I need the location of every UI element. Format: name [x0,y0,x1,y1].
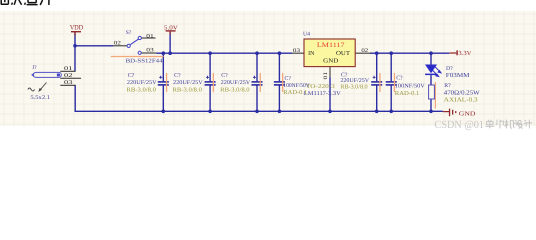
svg-text:VDD: VDD [70,25,83,32]
svg-text:IN: IN [308,50,315,57]
svg-text:3.3V: 3.3V [458,50,472,57]
svg-text:02: 02 [114,40,121,46]
svg-text:LM1117: LM1117 [317,42,346,49]
svg-text:RAD-0.1: RAD-0.1 [395,91,420,97]
svg-text:220UF/25V: 220UF/25V [127,80,158,86]
svg-text:220UF/25V: 220UF/25V [340,78,370,84]
svg-text:AXIAL-0.3: AXIAL-0.3 [444,97,478,104]
svg-text:100NF/50V: 100NF/50V [283,83,310,89]
svg-text:03: 03 [64,80,73,86]
svg-text:01: 01 [146,34,154,40]
svg-text:TO-220-3: TO-220-3 [306,84,335,90]
svg-text:LM1117-3.3V: LM1117-3.3V [304,91,342,97]
svg-text:CSDN @01: CSDN @01 [435,119,485,131]
svg-text:220UF/25V: 220UF/25V [221,80,252,86]
svg-text:GND: GND [323,57,339,64]
svg-text:RB-3.0/8.0: RB-3.0/8.0 [127,87,156,93]
svg-text:U4: U4 [303,31,310,37]
svg-text:100NF/50V: 100NF/50V [395,83,426,89]
svg-text:S?: S? [126,30,132,36]
svg-text:RB-3.0/8.0: RB-3.0/8.0 [220,88,249,94]
svg-text:03: 03 [293,48,301,54]
svg-text:C?: C? [221,73,228,79]
svg-text:OUT: OUT [336,50,350,57]
svg-text:220UF/25V: 220UF/25V [173,80,204,86]
svg-text:5.5x2.1: 5.5x2.1 [30,95,50,101]
svg-text:02: 02 [64,73,73,79]
svg-text:R?: R? [444,83,451,89]
svg-text:01: 01 [64,66,73,72]
svg-text:01: 01 [323,71,329,79]
svg-text:RAD-0.1: RAD-0.1 [283,90,307,96]
svg-text:5.0V: 5.0V [164,25,179,32]
svg-text:C?: C? [285,76,292,82]
svg-text:02: 02 [361,48,368,54]
svg-text:C?: C? [396,76,403,82]
svg-text:J?: J? [32,65,37,71]
svg-text:F03MM: F03MM [446,72,470,79]
svg-text:BD-SS12F44: BD-SS12F44 [126,58,163,64]
svg-text:C?: C? [128,73,135,79]
svg-text:RB-3.0/8.0: RB-3.0/8.0 [340,85,367,91]
svg-text:RB-3.0/8.0: RB-3.0/8.0 [173,88,202,94]
svg-text:GND: GND [459,110,476,117]
svg-text:03: 03 [146,48,154,54]
svg-text:470Ω/0.25W: 470Ω/0.25W [444,89,480,96]
svg-text:C?: C? [174,73,181,79]
